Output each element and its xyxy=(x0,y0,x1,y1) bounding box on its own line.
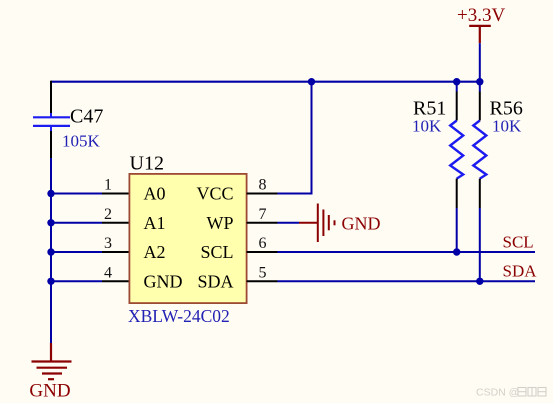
svg-text:A0: A0 xyxy=(144,184,166,204)
pin 8 xyxy=(247,193,278,195)
svg-text:5: 5 xyxy=(259,264,267,281)
node junction VCC drop xyxy=(308,78,315,85)
svg-text:A1: A1 xyxy=(144,213,166,233)
pin 2 xyxy=(102,222,129,224)
resistor R51 xyxy=(450,82,463,252)
capacitor C47 xyxy=(33,81,70,158)
resistor R56 xyxy=(473,82,486,282)
svg-text:A2: A2 xyxy=(144,242,166,262)
ground power port WP (bar style) xyxy=(299,204,335,243)
pin 6 xyxy=(247,251,278,253)
svg-text:1: 1 xyxy=(104,177,112,194)
power port +3.3V xyxy=(469,26,491,43)
pin 3 xyxy=(102,251,129,253)
pin 5 xyxy=(247,280,278,282)
svg-text:8: 8 xyxy=(259,177,267,194)
svg-text:XBLW-24C02: XBLW-24C02 xyxy=(128,306,230,326)
wire pin4 xyxy=(51,280,102,282)
pin 1 xyxy=(102,193,129,195)
wire pin3 xyxy=(51,251,102,253)
node junction pin1 left xyxy=(47,190,54,197)
node junction R56 to SDA xyxy=(476,278,483,285)
svg-text:10K: 10K xyxy=(412,117,442,136)
wire pin2 xyxy=(51,222,102,224)
node junction pin2 left xyxy=(47,219,54,226)
node junction R51 to SCL xyxy=(453,248,460,255)
node junction R51 top xyxy=(453,78,460,85)
wire top horizontal net xyxy=(51,81,480,83)
IC U12 (XBLW-24C02 EEPROM) body xyxy=(129,174,246,303)
svg-text:U12: U12 xyxy=(130,153,164,175)
svg-text:CSDN @: CSDN @ xyxy=(476,387,519,399)
wire left bus vertical xyxy=(50,157,52,343)
node junction R56 top xyxy=(476,78,483,85)
svg-text:VCC: VCC xyxy=(196,184,233,204)
svg-text:6: 6 xyxy=(259,235,267,252)
svg-text:SDA: SDA xyxy=(197,271,233,291)
wire pin6 SCL net xyxy=(278,251,536,253)
svg-text:GND: GND xyxy=(342,214,381,234)
svg-text:GND: GND xyxy=(29,381,70,402)
svg-text:WP: WP xyxy=(207,213,234,233)
svg-text:4: 4 xyxy=(104,264,112,281)
svg-text:SCL: SCL xyxy=(503,233,534,252)
wire pin8 to VCC net xyxy=(278,82,312,194)
node junction pin4 left xyxy=(47,278,54,285)
pin 4 xyxy=(102,280,129,282)
svg-text:10K: 10K xyxy=(492,117,522,136)
pin 7 xyxy=(247,222,278,224)
svg-text:SDA: SDA xyxy=(503,262,538,281)
svg-text:SCL: SCL xyxy=(200,242,233,262)
svg-text:GND: GND xyxy=(144,271,183,291)
svg-text:C47: C47 xyxy=(70,106,103,128)
svg-text:2: 2 xyxy=(104,206,112,223)
wire +3.3V down xyxy=(479,43,481,81)
svg-text:+3.3V: +3.3V xyxy=(457,5,505,26)
svg-text:105K: 105K xyxy=(62,132,101,151)
node junction pin3 left xyxy=(47,248,54,255)
watermark CSDN xyxy=(476,387,546,399)
wire pin7 to GND port xyxy=(278,222,300,224)
svg-text:3: 3 xyxy=(104,235,112,252)
svg-text:7: 7 xyxy=(259,206,267,223)
ground power port bottom xyxy=(32,343,72,379)
wire pin1 xyxy=(51,193,102,195)
wire pin5 SDA net xyxy=(278,280,536,282)
